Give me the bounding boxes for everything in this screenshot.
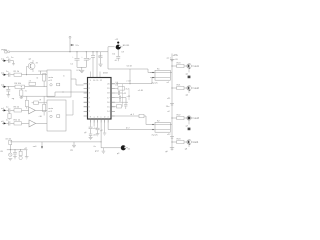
svg-text:R4 10k: R4 10k — [14, 83, 22, 85]
svg-text:g0: g0 — [165, 151, 168, 153]
svg-text:1u: 1u — [11, 57, 14, 59]
net label +15V — [167, 54, 179, 61]
svg-text:q6: q6 — [186, 95, 189, 97]
resistor R3 — [29, 79, 36, 85]
net arrow IN2 — [1, 72, 6, 75]
resistor R16 + lamp — [19, 150, 22, 160]
svg-text:z5: z5 — [115, 60, 118, 62]
output stage row 1 — [171, 63, 199, 79]
svg-text:C1: C1 — [70, 63, 74, 65]
svg-text:r2: r2 — [36, 77, 39, 80]
wire box M1 to IC — [71, 79, 84, 85]
svg-text:r3: r3 — [29, 79, 32, 82]
capacitor C1 — [70, 51, 79, 67]
wire — [69, 38, 71, 52]
svg-text:a2: a2 — [167, 111, 170, 113]
svg-text:dr 1: dr 1 — [130, 113, 134, 116]
wire — [115, 101, 128, 103]
capacitor C10 — [6, 121, 14, 125]
capacitor C7 shunt — [6, 86, 10, 97]
svg-text:b1: b1 — [128, 149, 131, 151]
svg-text:v ref: v ref — [126, 80, 130, 83]
svg-text:out3: out3 — [194, 117, 199, 120]
wire main +V rail — [10, 51, 108, 53]
wire long bottom drop — [101, 123, 120, 148]
op-amp IC1 body — [88, 78, 112, 120]
net arrow IN3 — [1, 84, 6, 87]
svg-text:c5: c5 — [6, 57, 9, 59]
svg-text:4558: 4558 — [103, 73, 108, 75]
connector J1 — [1, 50, 10, 53]
IC1 left pins — [84, 84, 88, 116]
svg-text:+: + — [72, 57, 74, 59]
svg-text:q8: q8 — [185, 149, 188, 151]
svg-text:dr 2: dr 2 — [126, 127, 130, 130]
wire feedback line — [116, 78, 155, 84]
resistor R13 — [115, 105, 122, 108]
ground — [24, 147, 28, 159]
resistor R6 — [6, 107, 29, 112]
wire — [93, 123, 95, 127]
resistor R11 — [6, 120, 29, 125]
svg-text:R6 1k: R6 1k — [14, 107, 20, 109]
svg-text:rly 12v: rly 12v — [152, 134, 159, 137]
wire link — [129, 69, 131, 84]
svg-text:R11 1k: R11 1k — [14, 120, 21, 122]
capacitor C5 — [6, 57, 14, 63]
wire line B to relay K2 — [108, 123, 155, 130]
svg-text:0V: 0V — [0, 151, 3, 153]
svg-text:12v: 12v — [75, 45, 79, 47]
ground — [94, 146, 106, 153]
capacitor C16 — [13, 150, 17, 159]
capacitor C11 — [115, 91, 127, 95]
svg-text:+12: +12 — [115, 39, 119, 41]
svg-text:C2: C2 — [88, 58, 92, 60]
wire — [6, 86, 15, 88]
ground — [12, 61, 15, 66]
output stage row 4 — [171, 139, 198, 151]
resistor R5 shunt — [20, 86, 28, 99]
svg-text:C9: C9 — [121, 52, 125, 54]
wire gnd bus — [77, 66, 86, 68]
relay K2 — [152, 120, 172, 136]
module box M1 — [47, 70, 71, 97]
ground flag mid — [70, 142, 76, 152]
svg-text:q5: q5 — [186, 73, 189, 75]
net flag down — [33, 142, 43, 149]
transistor Q2 cluster — [26, 58, 38, 75]
capacitor C12 — [115, 96, 131, 104]
relay K1 — [150, 68, 172, 84]
resistor R14 — [139, 114, 144, 118]
svg-text:a1: a1 — [167, 82, 170, 84]
svg-text:d: d — [104, 117, 105, 119]
svg-text:r9: r9 — [39, 98, 42, 101]
svg-text:52 32: 52 32 — [127, 65, 133, 67]
resistor R4 — [14, 83, 47, 88]
svg-text:+: + — [81, 57, 83, 59]
svg-text:gnd: gnd — [95, 151, 99, 153]
svg-text:c11: c11 — [123, 93, 127, 95]
capacitor C15 under IC — [84, 132, 97, 140]
capacitor C2 — [81, 51, 91, 67]
capacitor C4 — [116, 82, 117, 86]
svg-text:c20: c20 — [174, 59, 178, 61]
output stage row 3 — [171, 115, 199, 131]
svg-text:r8: r8 — [36, 61, 39, 64]
capacitor C6 — [6, 73, 14, 77]
wire ladder right of IC — [122, 84, 124, 107]
svg-text:D2: D2 — [112, 53, 116, 55]
svg-text:pg: pg — [70, 150, 73, 152]
svg-text:mute: mute — [48, 107, 53, 110]
svg-text:c21: c21 — [167, 98, 171, 100]
wire regulator feed — [108, 47, 115, 52]
node A — [69, 51, 70, 52]
svg-text:out1: out1 — [194, 65, 199, 68]
capacitor C22 on rail — [170, 137, 174, 139]
IC1 bottom pins — [91, 119, 109, 123]
net arrow IN5 — [1, 121, 6, 124]
wire bus y92 — [20, 92, 88, 96]
resistor R15 bottom left — [5, 137, 12, 149]
wire to IC pin — [92, 52, 94, 55]
svg-text:r5: r5 — [25, 90, 28, 93]
svg-text:sw1: sw1 — [33, 146, 38, 148]
svg-text:R1 1k: R1 1k — [14, 71, 20, 73]
resistor R12 — [115, 87, 130, 91]
IC1 right pins — [111, 84, 115, 116]
svg-text:g2: g2 — [100, 130, 103, 132]
ground — [79, 67, 84, 72]
wire stub — [91, 72, 101, 78]
resistor R7 shunt — [8, 113, 11, 120]
wire led bus — [7, 149, 28, 151]
capacitor C23 rail end — [165, 148, 174, 153]
module box M2 — [47, 100, 66, 131]
transistor Q3 — [117, 145, 131, 155]
resistor R9 — [32, 98, 47, 104]
svg-text:r10: r10 — [39, 115, 43, 118]
op-amp U2B — [29, 120, 47, 127]
resistor R8 — [25, 96, 28, 108]
wire box M2 up — [66, 100, 73, 115]
op-amp U2A — [29, 107, 47, 114]
terminal T1 — [69, 36, 71, 38]
capacitor C14 under IC — [89, 123, 98, 134]
output stage row 2 — [171, 85, 199, 97]
svg-text:q3: q3 — [117, 153, 120, 155]
svg-text:1u: 1u — [6, 107, 9, 109]
wire line A to relay K2 — [115, 115, 139, 117]
svg-text:c22: c22 — [167, 134, 171, 136]
svg-text:+15v: +15v — [173, 54, 179, 57]
svg-text:r15 2k: r15 2k — [5, 137, 12, 140]
IC1 pin numbers — [89, 80, 111, 118]
svg-text:10u: 10u — [166, 106, 170, 108]
svg-text:BD139: BD139 — [123, 45, 130, 47]
svg-text:rly 12v: rly 12v — [152, 82, 159, 85]
svg-text:s1 40: s1 40 — [138, 90, 144, 92]
capacitor C13 — [124, 104, 127, 109]
svg-text:1u: 1u — [6, 120, 9, 122]
transistor Q1 — [112, 39, 130, 62]
svg-text:out4: out4 — [194, 141, 199, 144]
resistor R2 — [36, 71, 47, 87]
svg-text:q7: q7 — [186, 125, 189, 127]
svg-text:ctl 2: ctl 2 — [48, 110, 53, 113]
resistor R1 — [6, 71, 47, 76]
capacitor C8 — [6, 108, 14, 112]
wire bottom rail — [10, 141, 101, 143]
svg-text:out2: out2 — [194, 87, 199, 90]
wire to relay K1 — [108, 52, 155, 73]
LED D1 — [8, 150, 12, 161]
resistor R10 feedback — [39, 96, 46, 118]
svg-text:mute: mute — [48, 76, 53, 79]
svg-text:g1: g1 — [84, 132, 87, 134]
svg-text:c: c — [101, 117, 102, 119]
capacitor C21 on rail — [170, 104, 174, 106]
capacitor C3 — [98, 52, 102, 67]
svg-text:b: b — [63, 75, 65, 77]
svg-text:q2: q2 — [29, 58, 32, 60]
svg-text:ctl 1: ctl 1 — [48, 79, 53, 82]
net flag VCC — [70, 44, 80, 47]
net arrow IN1 — [1, 58, 6, 61]
wire to IC pin — [96, 52, 98, 78]
svg-text:c12: c12 — [127, 96, 131, 98]
net arrow IN4 — [1, 108, 6, 111]
svg-text:0v: 0v — [94, 146, 97, 148]
power rail right — [171, 54, 173, 151]
svg-text:ag: ag — [12, 98, 15, 100]
